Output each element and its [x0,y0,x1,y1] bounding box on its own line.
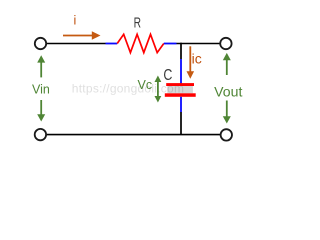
terminal: input top [35,38,46,49]
current arrow i [63,31,101,40]
svg-text:Vout: Vout [214,84,242,100]
resistor R zigzag [117,34,164,52]
capacitor C bottom plate [165,93,196,97]
current arrow ic [187,46,195,79]
wire: capacitor branch lower [180,112,182,135]
voltage arrow Vc (double headed) [155,76,162,103]
wire: top left segment [47,43,106,45]
wire: bottom [47,134,220,136]
terminal: output top [220,38,231,49]
resistor R left lead [106,43,118,45]
terminal: input bottom [35,129,46,140]
capacitor C top plate [166,83,194,86]
resistor R right lead [164,43,177,45]
voltage arrow Vin minus (down) [37,100,45,122]
voltage arrow Vout plus (up) [223,53,231,75]
capacitor C bottom lead [180,97,182,112]
svg-text:R: R [134,15,142,32]
svg-text:ic: ic [192,50,202,66]
voltage arrow Vin plus (up) [37,55,45,77]
terminal: output bottom [221,129,232,140]
wire: top right segment [177,43,220,45]
capacitor C top lead [180,59,182,84]
voltage arrow Vout minus (down) [223,101,231,124]
capacitor C dielectric slab [167,86,193,93]
wire: capacitor branch upper [180,43,182,59]
svg-text:Vin: Vin [32,83,50,97]
svg-text:Vc: Vc [138,78,153,92]
svg-text:i: i [74,14,77,28]
svg-text:C: C [163,67,172,84]
